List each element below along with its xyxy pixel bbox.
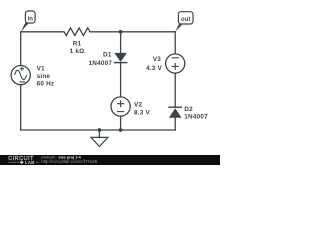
wire top rail left segment — [21, 31, 64, 33]
wire V3 branch from top rail — [174, 32, 176, 54]
wire D2 bottom to bottom rail — [174, 118, 176, 130]
svg-text:V1: V1 — [37, 65, 45, 72]
V3 minus sign — [172, 57, 179, 59]
svg-text:8.3 V: 8.3 V — [134, 109, 150, 116]
svg-text:D2: D2 — [184, 106, 193, 113]
svg-text:R1: R1 — [73, 40, 82, 47]
V1 minus sign — [20, 81, 25, 83]
diode D2 cathode bar — [168, 106, 182, 108]
footer logo diamond — [20, 160, 24, 164]
svg-text:V3: V3 — [153, 56, 161, 63]
diode D2 triangle (pointing up) — [169, 108, 182, 118]
svg-text:LAB: LAB — [25, 160, 35, 165]
wire V1 bottom to bottom rail — [20, 85, 22, 130]
svg-text:4.3 V: 4.3 V — [146, 65, 162, 72]
wire top rail right segment — [90, 31, 175, 33]
wire D1 branch from top rail — [120, 32, 122, 53]
junction dot bottom rail / ground — [98, 128, 102, 132]
wire left vertical to V1 — [20, 32, 22, 66]
svg-text:1N4007: 1N4007 — [184, 113, 208, 120]
svg-text:1N4007: 1N4007 — [89, 60, 113, 67]
svg-text:http://circuitlab.com/c/f77e65: http://circuitlab.com/c/f77e65 — [41, 159, 97, 164]
flag out box — [178, 12, 193, 24]
V1 sine squiggle — [15, 70, 27, 80]
flag in box — [25, 11, 35, 23]
component labels — [37, 40, 209, 120]
V2 minus sign — [117, 111, 124, 113]
footer logo divider line — [8, 161, 38, 163]
footer bar — [0, 155, 220, 165]
ground stem — [98, 130, 100, 137]
flag out tail — [175, 22, 182, 31]
svg-text:60 Hz: 60 Hz — [37, 81, 55, 88]
source V3 — [166, 54, 185, 73]
wire D1 to V2 — [120, 63, 122, 97]
svg-text:1 kΩ: 1 kΩ — [70, 48, 85, 55]
svg-text:sine: sine — [37, 73, 51, 80]
svg-text:V2: V2 — [134, 101, 142, 108]
flag in tail — [21, 22, 29, 32]
svg-text:out: out — [181, 17, 190, 23]
svg-text:D1: D1 — [103, 52, 112, 59]
source V1 (sine) — [11, 66, 30, 85]
wire V2 bottom to bottom rail — [120, 116, 122, 130]
ground triangle — [91, 137, 108, 146]
junction dot bottom rail / V2 — [119, 128, 123, 132]
wire bottom rail — [21, 129, 176, 131]
svg-text:in: in — [28, 16, 34, 22]
V3 plus sign — [172, 63, 179, 70]
junction dot top rail / D1 — [119, 30, 123, 34]
diode D1 cathode bar — [114, 62, 128, 64]
resistor R1 — [64, 28, 90, 36]
source V2 — [111, 97, 130, 116]
diode D1 triangle (pointing down) — [114, 53, 127, 62]
wire V3 to D2 — [174, 73, 176, 107]
V1 plus sign — [20, 67, 24, 71]
V2 plus sign — [117, 100, 124, 107]
